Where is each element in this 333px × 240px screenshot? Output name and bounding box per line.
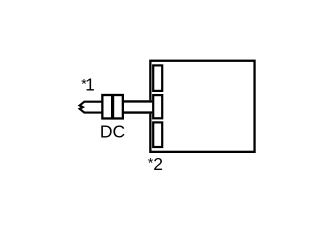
svg-text:2: 2 bbox=[153, 154, 163, 174]
svg-text:1: 1 bbox=[85, 75, 95, 95]
svg-text:DC: DC bbox=[100, 121, 125, 141]
